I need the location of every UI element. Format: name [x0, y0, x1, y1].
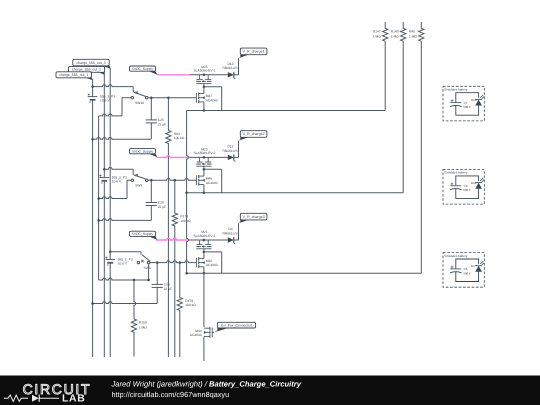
- svg-text:SLA5086-EV-1: SLA5086-EV-1: [193, 69, 215, 73]
- svg-text:1 MΩ: 1 MΩ: [391, 35, 399, 39]
- svg-text:D12: D12: [227, 144, 233, 148]
- battery 555_3_P3 10.6 V: [88, 96, 98, 98]
- wire M47 source: [203, 102, 205, 111]
- wire M46 source: [203, 185, 205, 193]
- svg-text:charge_555_out_1: charge_555_out_1: [59, 73, 88, 77]
- svg-text:charge_555_out_3: charge_555_out_3: [76, 61, 105, 65]
- capacitor C28 22 uF: [150, 180, 152, 202]
- node row3 throw junction: [147, 279, 150, 282]
- svg-text:5VDC_Supply: 5VDC_Supply: [132, 67, 153, 71]
- svg-text:SLA5086-EV-3: SLA5086-EV-3: [193, 234, 215, 238]
- svg-text:D10: D10: [471, 98, 477, 102]
- svg-text:1 MΩ: 1 MΩ: [409, 35, 417, 39]
- wire 5VDC supply (pink): [157, 156, 190, 158]
- svg-text:http://circuitlab.com/c967wnn8: http://circuitlab.com/c967wnn8qaxyu: [112, 390, 230, 399]
- wire row2 source rail to R148: [187, 192, 404, 194]
- svg-text:SW8: SW8: [144, 266, 151, 270]
- svg-text:AC4840: AC4840: [206, 181, 218, 185]
- svg-text:R179: R179: [185, 299, 193, 303]
- flag 5VDC_Supply: [130, 66, 156, 71]
- wire M23 gate loop: [204, 168, 222, 170]
- capacitor C2 500 F: [456, 176, 479, 186]
- svg-text:Simulates battery: Simulates battery: [444, 171, 468, 175]
- diode D11: [475, 183, 482, 189]
- wire SW10 common to column B: [122, 97, 131, 99]
- node battery1 plus junction: [91, 85, 94, 88]
- node battery2 plus junction: [103, 168, 106, 171]
- svg-text:1 MΩ: 1 MΩ: [139, 325, 147, 329]
- svg-text:Jared Wright (jaredkwright) /: Jared Wright (jaredkwright) / Battery_Ch…: [111, 379, 302, 388]
- svg-text:22 µF: 22 µF: [158, 123, 167, 127]
- transistor M44 AC4840: [211, 328, 213, 338]
- svg-text:V_R_charge1: V_R_charge1: [243, 50, 265, 54]
- wire M48 drain: [203, 252, 205, 259]
- resistor R159 1 MΩ: [134, 280, 136, 319]
- resistor R147 1 MΩ: [383, 22, 388, 41]
- wire rail link rows 1-3: [187, 111, 189, 193]
- wire 5VDC to M25: [190, 74, 228, 76]
- flag V_R_charge1: [240, 48, 267, 55]
- svg-text:AC4840: AC4840: [206, 263, 218, 267]
- wire M44 source down: [203, 337, 205, 361]
- wire battery3 to SW8: [110, 251, 141, 253]
- wire SW9 common to column B: [127, 179, 131, 181]
- flag V_R_charge3: [240, 213, 267, 220]
- dashed box simulates battery 3: [443, 253, 484, 288]
- svg-text:R63: R63: [174, 132, 180, 136]
- wire D12 cathode up: [234, 156, 239, 158]
- wire C25 bottom return: [93, 138, 152, 140]
- diode D4 RB061L/S: [228, 237, 234, 242]
- wire row1 source rail to R147: [187, 110, 386, 112]
- wire SW10 output to M47 gate: [148, 97, 196, 99]
- node M48 source junction: [203, 272, 206, 275]
- wire M48 source: [203, 267, 205, 274]
- svg-text:100 kΩ: 100 kΩ: [185, 303, 196, 307]
- capacitor C25 22 uF: [150, 98, 152, 120]
- resistor R148 1 MΩ: [401, 22, 406, 41]
- svg-text:V_R_charge2: V_R_charge2: [243, 132, 265, 136]
- svg-text:R147: R147: [373, 30, 381, 34]
- flag charge_555_out_1: [56, 72, 92, 78]
- wire switch-common column B: [98, 116, 100, 280]
- battery 555_1_P3 10.6 V: [105, 259, 115, 261]
- node M46 source junction: [203, 191, 206, 194]
- switch SW8: [137, 261, 140, 264]
- resistor R173 100 kΩ: [172, 180, 177, 357]
- wire M44 drain column: [203, 273, 205, 327]
- svg-text:22 µF: 22 µF: [164, 287, 173, 291]
- wire D13 cathode up: [234, 74, 239, 76]
- battery 555_2_P3 10.6 V: [100, 177, 110, 179]
- node M25 gate junction: [203, 85, 206, 88]
- transistor M25 SLA5086-EV-1: [199, 75, 201, 80]
- svg-text:AC4840: AC4840: [190, 333, 202, 337]
- wire M21 gate loop: [204, 251, 222, 253]
- wire M46 drain: [203, 169, 205, 176]
- flag Ext_Pwr_Connected: [217, 322, 255, 328]
- svg-text:500 F: 500 F: [463, 105, 471, 109]
- flag 5VDC_Supply: [130, 231, 156, 236]
- diode D12 RB061L/S: [228, 155, 234, 160]
- svg-text:RB061L/S: RB061L/S: [222, 231, 238, 235]
- switch SW10: [131, 96, 134, 99]
- node M47 source junction: [203, 109, 206, 112]
- flag charge_555_out_3: [73, 59, 109, 66]
- svg-text:RB061L/S: RB061L/S: [222, 66, 238, 70]
- transistor M21 SLA5086-EV-3: [199, 240, 201, 245]
- node M21 gate junction: [203, 251, 206, 254]
- flag V_R_charge2: [240, 131, 267, 138]
- diode D1: [475, 266, 482, 272]
- node M23 gate junction: [203, 168, 206, 171]
- svg-text:5VDC_Supply: 5VDC_Supply: [132, 149, 153, 153]
- switch SW9: [131, 179, 134, 182]
- resistor R179 100 kΩ: [177, 263, 182, 357]
- wire M44 gate: [212, 331, 214, 333]
- dashed box simulates battery 1: [443, 86, 484, 121]
- svg-text:SW9: SW9: [135, 184, 142, 188]
- transistor M48 AC4840: [195, 258, 197, 268]
- svg-text:C28: C28: [158, 201, 164, 205]
- svg-text:D13: D13: [227, 62, 233, 66]
- svg-text:22 µF: 22 µF: [158, 205, 167, 209]
- svg-text:10.6 V: 10.6 V: [118, 262, 128, 266]
- diode D13 RB061L/S: [228, 72, 234, 77]
- node rail junction row3: [185, 272, 188, 275]
- wire flag2 to column C: [103, 72, 105, 75]
- svg-text:C29: C29: [164, 283, 170, 287]
- svg-text:V_R_charge3: V_R_charge3: [243, 215, 265, 219]
- dashed box simulates battery 2: [443, 170, 484, 205]
- svg-text:5VDC_Supply: 5VDC_Supply: [132, 232, 153, 236]
- transistor M46 AC4840: [195, 175, 197, 185]
- wire battery2 to SW9: [104, 167, 133, 169]
- svg-text:D4: D4: [228, 227, 232, 231]
- svg-text:1 MΩ: 1 MΩ: [373, 35, 381, 39]
- svg-text:charge_555_out_2: charge_555_out_2: [72, 68, 101, 72]
- resistor R46 1 MΩ: [419, 22, 424, 41]
- wire flag3 to column D: [109, 66, 110, 69]
- svg-text:AC4840: AC4840: [206, 98, 218, 102]
- wire SW9 output to M46 gate: [148, 179, 196, 181]
- wire M47 drain: [203, 87, 205, 94]
- wire 5VDC to M23: [190, 156, 228, 158]
- svg-text:10.6 V: 10.6 V: [112, 180, 122, 184]
- wire C28 bottom return: [99, 219, 152, 221]
- wire 5VDC to M21: [190, 239, 228, 241]
- wire net charge_555_out_3 column D: [109, 69, 111, 260]
- transistor M47 AC4840: [195, 93, 197, 103]
- flag 5VDC_Supply: [130, 149, 156, 154]
- wire D4 cathode up: [234, 239, 239, 241]
- capacitor C29 22 uF: [156, 263, 158, 285]
- resistor R63 100 kΩ: [166, 98, 171, 357]
- wire net charge_555_out_2 column C: [103, 75, 105, 178]
- capacitor C6 500 F: [456, 259, 479, 269]
- svg-text:Simulates battery: Simulates battery: [444, 254, 468, 258]
- svg-text:R159: R159: [139, 320, 147, 324]
- svg-text:500 F: 500 F: [463, 271, 471, 275]
- wire row3 source rail to R46: [187, 272, 422, 274]
- svg-text:RB061L/S: RB061L/S: [222, 149, 238, 153]
- wire net charge_555_out_1 column A: [92, 80, 94, 97]
- svg-text:100 kΩ: 100 kΩ: [180, 219, 191, 223]
- footer bar: [0, 376, 540, 405]
- capacitor C7 500 F: [456, 93, 479, 103]
- svg-text:10.6 V: 10.6 V: [100, 99, 110, 103]
- node column B junction row2: [97, 197, 100, 200]
- wire flag1 to column A: [91, 78, 92, 80]
- svg-text:R148: R148: [391, 30, 399, 34]
- svg-text:Simulates battery: Simulates battery: [444, 88, 468, 92]
- node R159 top junction: [133, 279, 136, 282]
- svg-text:100 kΩ: 100 kΩ: [174, 136, 185, 140]
- node rail junction row2: [185, 191, 188, 194]
- wire C29 bottom return: [93, 302, 158, 304]
- svg-text:SW10: SW10: [135, 101, 144, 105]
- svg-text:R46: R46: [409, 30, 415, 34]
- wire battery1 to SW10: [93, 85, 134, 87]
- diode D10: [475, 100, 482, 106]
- wire SW8 output to M48 gate: [150, 261, 197, 263]
- svg-text:C25: C25: [158, 118, 164, 122]
- flag charge_555_out_2: [69, 66, 105, 72]
- wire M25 gate loop: [204, 86, 222, 88]
- wire 5VDC supply (pink): [157, 74, 190, 76]
- svg-text:LAB: LAB: [62, 394, 85, 405]
- svg-text:500 F: 500 F: [463, 188, 471, 192]
- wire 5VDC supply (pink): [156, 238, 190, 240]
- node battery3 plus junction: [109, 251, 112, 254]
- svg-text:D1: D1: [471, 264, 475, 268]
- svg-text:Ext_Pwr_Connected: Ext_Pwr_Connected: [221, 323, 252, 327]
- wire row3 throw to common: [148, 264, 150, 280]
- svg-text:SLA5086-EV-2: SLA5086-EV-2: [193, 151, 215, 155]
- transistor M23 SLA5086-EV-2: [199, 157, 201, 162]
- svg-text:D11: D11: [471, 181, 477, 185]
